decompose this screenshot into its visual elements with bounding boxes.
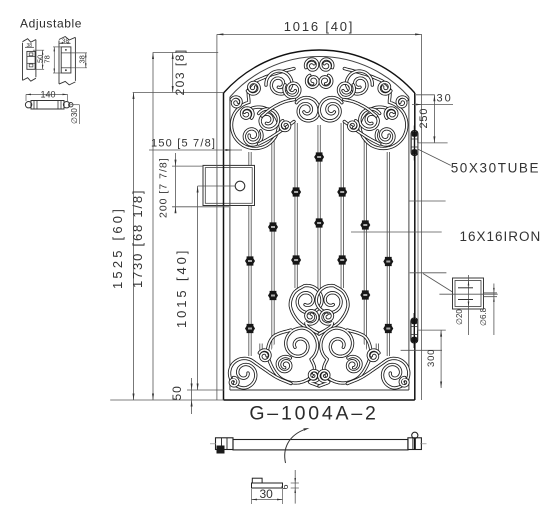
barrel line4: [60, 101, 62, 110]
top band corner oval top-left curl (left): [242, 108, 254, 118]
bottom view right block pin: [414, 438, 416, 450]
arrow 300 bottom: [440, 382, 442, 389]
barrel line3: [57, 101, 59, 110]
knuckle ornament on bar at (296,260): [291, 255, 301, 264]
bottom band heart inner curl (left): [306, 311, 319, 334]
barrel line1: [33, 101, 35, 110]
ext line bottom outer: [110, 399, 224, 401]
bottom band bottom center curl (left): [310, 371, 320, 386]
top band top center curl (right): [321, 59, 333, 70]
detail side hole line 1: [484, 292, 498, 294]
top band center volute (left): [296, 98, 319, 121]
top band second center curl (left): [307, 75, 319, 87]
arrow 150 right: [226, 149, 233, 151]
barrel 140 arrow l: [26, 94, 31, 96]
gate outer arch: [224, 50, 415, 93]
rotation arrow: [285, 429, 307, 463]
detail A plate line1: [27, 56, 35, 58]
barrel right cap: [63, 102, 69, 108]
top band chain small scroll (right): [339, 83, 355, 97]
arrow 6.8 top: [493, 288, 495, 293]
leader lock circle: [198, 185, 236, 187]
ext line spring right: [416, 94, 435, 96]
arrow 30b left: [252, 499, 258, 501]
vertical bar 16x16 at x=342: [341, 123, 344, 288]
ext line lock top: [172, 165, 203, 167]
detail B 38 arrow l: [60, 42, 64, 43]
gate right stile outer line: [414, 93, 416, 400]
top band top center curl (left): [306, 59, 318, 70]
arrow 1015 top: [197, 186, 199, 193]
svg-text:300: 300: [426, 349, 437, 367]
bottom band big C-scroll (right): [321, 328, 371, 383]
barrel left cap: [25, 102, 31, 108]
detail B ext 38r bottom: [71, 67, 87, 69]
bottom band big C nested curl (left): [277, 357, 291, 372]
hinge pin line: [417, 143, 419, 331]
top band center volute (right): [319, 98, 342, 121]
ext line lock bottom: [172, 206, 229, 208]
scroll band white occlusion fills: [231, 61, 408, 387]
ext line detail level: [410, 272, 447, 274]
bottom view pin circle: [412, 432, 418, 438]
top band lower garland arc (left): [259, 122, 295, 145]
knuckle ornament on bar at (388,262): [383, 257, 393, 266]
svg-text:38: 38: [78, 55, 87, 63]
vertical bar 16x16 at x=296: [295, 123, 298, 288]
arrow 200 top: [175, 160, 177, 167]
svg-text:1525 [60]: 1525 [60]: [110, 206, 125, 289]
top band corner oval inner volute (right): [360, 109, 380, 129]
detail hole line 2: [458, 299, 473, 301]
arrow 6 top: [294, 478, 296, 483]
svg-text:1016 [40]: 1016 [40]: [284, 19, 354, 34]
dim line 300: [440, 330, 442, 388]
arrow 6.8 bottom: [493, 297, 495, 302]
small detail ext left: [251, 489, 253, 504]
detail B plate line1: [61, 52, 71, 54]
ext/dim line 150 horizontal: [149, 149, 242, 151]
arrow 203 bottom: [172, 86, 174, 93]
svg-text:16X16IRON: 16X16IRON: [460, 229, 542, 244]
knuckle ornament on bar at (365,225): [360, 220, 370, 229]
knuckle ornament on bar at (250,328): [245, 324, 255, 333]
bottom view bar body: [233, 440, 408, 450]
top band upper garland arc (left): [262, 100, 295, 117]
bottom view left pin: [217, 446, 225, 454]
barrel right pin circle: [69, 103, 73, 107]
bottom hinge: [411, 313, 418, 348]
gate bottom rail top line: [230, 389, 409, 391]
detail B dim 38r: [85, 53, 87, 68]
gate right stile inner line: [408, 97, 410, 390]
bottom band bottom center curl (right): [319, 371, 329, 386]
ext line gate left vertical: [216, 34, 218, 400]
svg-text:Adjustable: Adjustable: [20, 17, 82, 31]
top band corner oval bottom curl (right): [376, 129, 394, 145]
ext line top hinge center: [418, 142, 447, 144]
svg-text:203 [8]: 203 [8]: [173, 48, 187, 95]
arrow 1525 top: [133, 93, 135, 100]
barrel dim 140 line: [26, 93, 68, 95]
barrel 140 arrow r: [63, 94, 68, 96]
top band corner small curl (left): [231, 97, 241, 107]
bottom band big C-scroll (left): [268, 328, 318, 383]
ext line mystery: [401, 349, 442, 351]
bar stub near bottom rail x=377: [376, 344, 379, 353]
top band chain first curl (left): [247, 82, 259, 94]
vertical bar 16x16 at x=319: [318, 125, 321, 293]
svg-text:150 [5 7/8]: 150 [5 7/8]: [151, 138, 216, 150]
svg-text:30: 30: [260, 487, 274, 501]
bottom band heart inner curl (right): [319, 311, 333, 334]
dim line 203: [172, 53, 174, 93]
vertical bar 16x16 at x=365: [364, 131, 367, 350]
top band chain medium scroll (right): [346, 71, 372, 94]
detail side hole line 2: [484, 296, 498, 298]
ext line bottom hinge center: [418, 329, 446, 331]
top band corner oval C-scroll (left): [232, 69, 295, 149]
knuckle ornament on bar at (388,328): [383, 324, 393, 333]
detail A arrow top: [42, 50, 44, 55]
knuckle ornament on bar at (273,227): [268, 222, 278, 231]
detail A plate: [27, 51, 35, 69]
arrow 1015 bottom: [197, 384, 199, 391]
arrow 30b right: [277, 499, 283, 501]
small detail ext right: [282, 489, 284, 504]
top band chain first curl (right): [379, 82, 391, 94]
bottom view centerline left: [210, 443, 216, 445]
detail B 78 arrow top: [54, 47, 56, 52]
top band upper garland arc (right): [344, 100, 377, 117]
frame ext line over lock box: [216, 165, 218, 205]
detail A ext bottom: [33, 68, 44, 70]
bottom band corner wave scroll (left): [230, 358, 292, 388]
top band corner oval inner volute (left): [259, 109, 279, 129]
svg-text:30: 30: [437, 93, 453, 105]
svg-text:140: 140: [41, 90, 56, 100]
dim line 250: [433, 95, 435, 143]
bottom band heart lobe (left): [290, 286, 322, 334]
detail B 38r arrow bot: [85, 63, 87, 68]
gate bottom rail bottom line: [224, 399, 415, 401]
detail B plate: [61, 47, 71, 73]
knuckle ornament on bar at (365,295): [360, 290, 370, 299]
bottom band corner tiny curl (left): [230, 378, 238, 386]
arrow 250 top: [433, 95, 435, 102]
dim line 200: [175, 153, 177, 213]
bottom view left block line2: [226, 438, 228, 450]
detail B post bar: [59, 37, 75, 85]
lock cylinder circle: [235, 181, 245, 191]
detail A ext top: [33, 49, 44, 51]
dim line 6.8: [493, 284, 495, 336]
arrow 250 bottom: [433, 136, 435, 143]
top band corner oval C-scroll (right): [344, 69, 407, 149]
detail A plate line2: [27, 62, 35, 64]
svg-text:∅30: ∅30: [70, 108, 79, 124]
barrel centerline: [71, 104, 80, 106]
dim line 50: [191, 378, 193, 414]
dim line 1016: [217, 33, 422, 35]
detail B bolt dot2: [65, 69, 67, 71]
arrow 6 bottom: [294, 488, 296, 493]
top band chain small scroll (left): [284, 83, 300, 97]
barrel dia30 line: [79, 105, 81, 124]
svg-text:6: 6: [280, 484, 290, 489]
gate left stile inner line: [229, 97, 231, 390]
small detail step: [252, 478, 262, 483]
frame inner line over lock box: [229, 165, 231, 205]
bottom view left block line1: [221, 438, 223, 450]
arrow 1730 bottom: [152, 394, 154, 401]
dim line 1730: [152, 53, 154, 401]
top hinge: [411, 126, 418, 161]
dim line 1525: [133, 93, 135, 401]
arrow 1525 bottom: [133, 394, 135, 401]
detail h centerline: [439, 293, 497, 295]
arrow 200 bottom: [175, 207, 177, 214]
bottom band wave tail curl (right): [368, 350, 379, 361]
arrow 300 top: [440, 330, 442, 337]
knuckle ornament on bar at (273,296): [268, 291, 278, 300]
ext 6 bottom: [291, 487, 299, 489]
leader 50X30TUBE: [418, 149, 451, 165]
bottom band corner wave scroll (right): [347, 358, 409, 388]
ext line bottom rail top: [187, 389, 224, 391]
detail A bolt1: [29, 53, 33, 56]
barrel body: [31, 101, 64, 110]
bottom band heart lobe (right): [316, 286, 348, 334]
arrow 1730 top: [152, 53, 154, 60]
svg-text:G–1004A–2: G–1004A–2: [249, 403, 378, 425]
bottom band corner tiny curl (right): [400, 378, 408, 386]
ext line top arch level: [153, 52, 219, 54]
top band lower garland arc (right): [344, 122, 380, 145]
svg-text:50: 50: [170, 385, 184, 400]
lock box inner plate: [205, 168, 252, 204]
top band corner small curl (right): [397, 97, 407, 107]
knuckle ornament on bar at (342,260): [337, 255, 347, 264]
gate left stile outer line: [223, 93, 225, 400]
ext 6 top: [291, 482, 299, 484]
top band chain medium scroll (left): [266, 71, 292, 94]
detail A arrow bottom: [42, 65, 44, 70]
detail hole line 1: [458, 287, 473, 289]
detail B bolt dot1: [65, 49, 67, 51]
detail B 38r arrow top: [85, 53, 87, 58]
svg-text:∅20: ∅20: [455, 309, 464, 325]
rotation arrowhead: [303, 428, 309, 431]
dim line 30 horizontal: [412, 104, 453, 106]
detail B ext 78 top: [53, 46, 61, 48]
top band garland curl (left): [280, 121, 290, 131]
arrow 50 top: [191, 384, 193, 391]
detail B dim 38 line: [60, 43, 71, 45]
barrel ext right: [67, 94, 69, 101]
frame outer line over lock box: [223, 165, 225, 205]
svg-text:∅6.8: ∅6.8: [479, 307, 488, 326]
lock box outer plate: [203, 165, 255, 205]
detail A post bar: [23, 39, 36, 81]
top band corner oval bottom curl (left): [244, 129, 262, 145]
svg-text:1015 [40]: 1015 [40]: [174, 248, 189, 328]
bottom band wave tail curl (left): [259, 350, 270, 361]
barrel line2: [36, 101, 38, 110]
bottom view right end block: [408, 438, 422, 450]
ext line gate right vertical: [421, 34, 423, 400]
knuckle ornament on bar at (319,157): [314, 152, 324, 161]
svg-text:200 [7 7/8]: 200 [7 7/8]: [158, 157, 170, 218]
leader 16X16IRON: [351, 231, 442, 233]
svg-text:38: 38: [62, 38, 70, 45]
vertical bar 16x16 at x=273: [272, 131, 275, 350]
svg-text:50X30TUBE: 50X30TUBE: [451, 161, 540, 176]
bottom view left end block: [216, 438, 234, 450]
top band garland curl (right): [349, 121, 359, 131]
svg-text:1730 [68 1/8]: 1730 [68 1/8]: [130, 189, 145, 288]
leader square tube detail: [423, 274, 453, 293]
ext line lock level right: [409, 200, 446, 202]
dim line 30 bottom: [252, 499, 283, 501]
detail v centerline: [468, 275, 470, 335]
gate inner arch: [230, 56, 409, 97]
detail A bolt2: [29, 64, 33, 67]
detail arrow down: [468, 302, 470, 307]
detail B 78 arrow bot: [54, 69, 56, 74]
svg-text:38: 38: [27, 43, 33, 49]
arrow 1016 right: [415, 33, 422, 35]
small detail main bar: [252, 483, 283, 488]
top band corner oval top-left curl (right): [385, 108, 397, 118]
detail square tube outer: [453, 278, 484, 309]
arrow 30: [416, 104, 422, 106]
vertical bar 16x16 at x=388: [387, 152, 390, 356]
bottom view right block line1: [412, 438, 414, 450]
top band second center curl (right): [320, 75, 332, 87]
bottom band big C nested curl (right): [348, 357, 362, 372]
vertical bar 16x16 at x=250: [249, 152, 252, 356]
detail B ext 78 bottom: [53, 72, 61, 74]
knuckle ornament on bar at (342,192): [337, 187, 347, 196]
detail A top mini dim 38: [25, 43, 34, 49]
dim line 6: [294, 470, 296, 504]
knuckle ornament on bar at (319,223): [314, 218, 324, 227]
arrow 1016 left: [217, 33, 224, 35]
detail B 38 arrow r: [67, 42, 71, 43]
detail square tube inner: [455, 281, 481, 307]
detail arrow up: [468, 281, 470, 286]
dim line 1015: [197, 186, 199, 390]
detail B plate line2: [61, 67, 71, 69]
bar stub near bottom rail x=261: [260, 344, 263, 353]
arrow 203 top: [172, 53, 174, 60]
barrel ext left: [25, 94, 27, 101]
detail B dim 78: [53, 47, 55, 73]
detail A dim 50: [42, 50, 44, 69]
svg-text:250: 250: [418, 108, 430, 129]
knuckle ornament on bar at (250,261): [245, 256, 255, 265]
arrow 50 bottom: [191, 400, 193, 407]
detail B ext 38r top: [71, 52, 87, 54]
bottom view centerline right: [420, 443, 427, 445]
knuckle ornament on bar at (296,192): [291, 187, 301, 196]
svg-text:78: 78: [43, 55, 52, 63]
ext line spring level: [133, 92, 224, 94]
